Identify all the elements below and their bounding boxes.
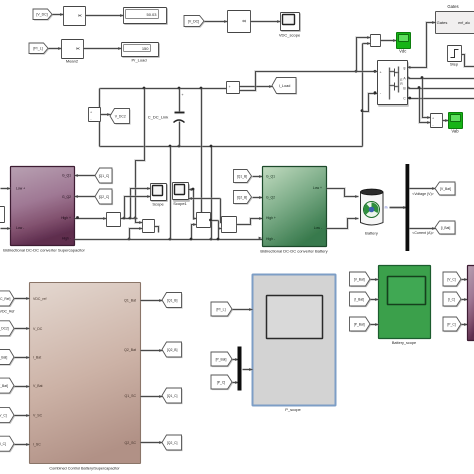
wire (86, 14, 124, 17)
wire to V_DC2 tag (101, 113, 111, 116)
wire gates output (473, 21, 474, 24)
battery block icon (361, 192, 384, 225)
block cut off at left edge (0, 207, 5, 223)
wire (462, 298, 468, 301)
block1 measurement (107, 213, 121, 227)
wire negative rail into High- (261, 238, 264, 241)
wire high+ to current block1 (75, 217, 107, 220)
svg-text:Low +: Low + (313, 186, 322, 190)
svg-text:[Q1_B]: [Q1_B] (167, 298, 177, 302)
wire (462, 323, 468, 326)
svg-text:[Q2_B]: [Q2_B] (237, 195, 247, 199)
wire bridge output B (409, 87, 474, 90)
wire vertical tie x=201 (200, 89, 203, 215)
wire current continuation to bridge + (240, 72, 376, 91)
wire (371, 298, 379, 301)
svg-text:[V_DC]: [V_DC] (36, 13, 47, 17)
svg-text:g: g (404, 66, 406, 70)
scope block Scope (152, 185, 168, 202)
svg-text:[Q2_B]: [Q2_B] (167, 348, 177, 352)
wire step output (462, 55, 474, 67)
wire riser to Scope in1 (131, 189, 151, 219)
svg-text:Scope: Scope (152, 202, 164, 207)
svg-text:[P_Bat]: [P_Bat] (216, 357, 227, 361)
wire vertical tie x=170 (169, 147, 172, 240)
svg-text:[V_DC]: [V_DC] (188, 19, 199, 23)
svg-text:Pr_Load: Pr_Load (131, 58, 146, 63)
svg-text:High +: High + (266, 216, 276, 220)
svg-text:[Pr_L]: [Pr_L] (33, 47, 42, 51)
svg-text:Low -: Low - (16, 226, 24, 230)
display Vab (green) (449, 113, 463, 129)
subsystem block universal bridge (MOSFET) (379, 63, 409, 107)
subsystem Combined Control Battery/Supercapacitor (30, 283, 141, 464)
wire Pr_L to P_scope (233, 308, 253, 311)
svg-text:V_SC: V_SC (33, 414, 43, 418)
wire Low- to battery - (327, 219, 359, 229)
svg-text:Scope1: Scope1 (173, 201, 187, 206)
wire (205, 20, 228, 23)
from tag V_Bat (351, 273, 372, 287)
svg-text:G_Q1: G_Q1 (266, 174, 275, 178)
wire Low+ to battery + (327, 189, 359, 197)
subsystem Bidirectional DC-DC converter Supercapacitor (11, 167, 75, 246)
svg-text:P_scope: P_scope (285, 407, 301, 412)
svg-text:V_DC: V_DC (33, 327, 43, 331)
from tag P_C (212, 376, 233, 390)
svg-text:[Q2_C]: [Q2_C] (167, 441, 178, 445)
scope window P_scope (253, 275, 336, 406)
wire (84, 47, 122, 50)
block Mean3 (228, 11, 251, 33)
block Mean2 (62, 40, 84, 59)
svg-text:VDC_Ref: VDC_Ref (0, 310, 14, 314)
svg-text:Battery: Battery (365, 231, 378, 236)
display block Pr_Load 150 (123, 44, 160, 58)
wire Q1_B to G_Q1 (253, 175, 263, 178)
wire into bridge + port (376, 70, 378, 73)
goto tags right (outputs) (141, 299, 163, 302)
svg-text:150: 150 (142, 46, 149, 51)
wire riser to Scope in2 (125, 197, 151, 219)
wire Q2_C to G_Q2 (75, 195, 96, 198)
block4 product (222, 217, 237, 233)
goto tag I_Load (273, 79, 297, 95)
svg-text:VDC_scope: VDC_scope (279, 33, 301, 38)
svg-text:Step: Step (450, 62, 459, 67)
from tag I_Bat (351, 293, 372, 307)
scope block Battery_scope (379, 266, 431, 339)
wire into Low- from left edge (1, 227, 11, 230)
wire into block3 in2 (192, 225, 197, 240)
svg-text:[Q1_B]: [Q1_B] (237, 174, 247, 178)
svg-text:[V_C]: [V_C] (0, 414, 7, 418)
from tag Pr_L (212, 303, 233, 317)
block Vab voltage measurement (431, 114, 443, 128)
svg-text:[Q1_C]: [Q1_C] (99, 174, 110, 178)
from tag P_Bat (212, 353, 233, 367)
capacitor C_DC_Link (178, 89, 181, 113)
svg-text:V_DC2: V_DC2 (115, 114, 126, 118)
svg-text:[I_C]: [I_C] (448, 297, 455, 301)
wire dc-link negative vertical (361, 44, 364, 147)
wire vdc measure - riser (363, 42, 371, 45)
wire mux to P_scope (243, 368, 253, 371)
wire node to block3 in1 (194, 190, 197, 219)
block Mean1 (64, 7, 86, 26)
svg-text:Q1_Bat: Q1_Bat (124, 299, 136, 303)
svg-text:[I_Bat]: [I_Bat] (0, 355, 7, 359)
svg-text:Vdc: Vdc (399, 49, 406, 54)
wire (443, 119, 449, 122)
wire Q2_B to G_Q2 (253, 196, 263, 199)
svg-text:50.03: 50.03 (146, 12, 157, 17)
svg-text:[Pr_L]: [Pr_L] (216, 307, 225, 311)
wire link positive to supercap high side (136, 89, 145, 219)
svg-text:[I_Bat]: [I_Bat] (441, 226, 451, 230)
wire A to Vab measure (423, 79, 431, 118)
svg-text:[P_Bat]: [P_Bat] (354, 322, 365, 326)
wire (371, 323, 379, 326)
svg-text:[V_DC2]: [V_DC2] (0, 327, 9, 331)
svg-text:I_Load: I_Load (279, 84, 291, 88)
svg-text:Battery_scope: Battery_scope (392, 341, 416, 345)
wire into Low+ from left edge (1, 187, 11, 190)
svg-text:x̄: x̄ (242, 19, 248, 22)
mux bar (238, 347, 242, 391)
wire block2 out (155, 227, 159, 233)
svg-text:[Q1_C]: [Q1_C] (167, 394, 178, 398)
svg-text:Combined Control Battery/Super: Combined Control Battery/Supercapacitor (49, 467, 120, 471)
display Vdc (green) (397, 33, 411, 49)
svg-text:C_DC_Link: C_DC_Link (148, 115, 168, 120)
wire (462, 278, 468, 281)
from tag Pr_L (row 2) (30, 44, 49, 55)
svg-text:[Q2_C]: [Q2_C] (99, 195, 110, 199)
svg-text:[P_C]: [P_C] (447, 322, 455, 326)
svg-text:High -: High - (62, 237, 71, 241)
svg-text:[P_C]: [P_C] (217, 380, 226, 384)
display block 50.03 (125, 9, 168, 25)
block voltage measurement V_DC2 (89, 108, 101, 122)
from tag Q2_B (235, 192, 253, 205)
svg-text:I_SC: I_SC (33, 442, 41, 446)
from tag Q1_B (235, 171, 253, 184)
svg-text:+: + (379, 70, 381, 74)
svg-text:+: + (229, 85, 231, 89)
from tag P_Bat (351, 318, 372, 332)
svg-text:<Current (A)>: <Current (A)> (412, 231, 433, 235)
wire into Scope1 in1 from right (189, 188, 194, 191)
from tag P_C (444, 318, 462, 332)
scope block Scope1 (flipped) (174, 185, 190, 202)
wire vertical x=218 (217, 221, 220, 240)
wire (371, 278, 379, 281)
from tags left edge (inputs) (0, 292, 15, 307)
from tag I_Bat (bus) (436, 222, 456, 235)
subsystem Bidirectional DC-DC converter Battery (263, 167, 327, 247)
wire B to Vab measure (420, 89, 431, 123)
wire bus out Current (410, 227, 436, 230)
block current measurement I_Load sensor (227, 82, 240, 94)
from tag V_DC (row 3) (185, 17, 205, 28)
wire into block2 in1 (136, 219, 143, 223)
scope block VDC_scope (282, 14, 301, 32)
svg-text:[V_Bat]: [V_Bat] (0, 384, 8, 388)
wire dc-link left branch top (98, 89, 101, 108)
wire to I_Load tag (240, 85, 273, 88)
wire (251, 20, 281, 23)
wire vdc measure + riser (357, 38, 371, 72)
svg-text:Q1_SC: Q1_SC (125, 394, 137, 398)
subsystem supercapacitor scope (cut off) (468, 266, 474, 341)
svg-text:+: + (432, 117, 434, 121)
svg-text:G_Q1: G_Q1 (62, 173, 71, 177)
svg-text:[VDC_Ref]: [VDC_Ref] (0, 297, 10, 301)
svg-text:High +: High + (61, 216, 71, 220)
wire block1 out (121, 217, 138, 220)
wire (53, 13, 64, 16)
wire block3 out (211, 219, 219, 222)
wire into Scope1 in2 from right (189, 197, 221, 200)
svg-text:G_Q2: G_Q2 (266, 196, 275, 200)
from tag Q2_C (96, 190, 113, 205)
svg-text:I_Bat: I_Bat (33, 356, 41, 360)
wire gates input from bridge g (409, 23, 436, 68)
wire (233, 358, 239, 361)
from tag V_C (444, 273, 462, 287)
svg-text:VDC_ref: VDC_ref (33, 297, 46, 301)
wire bus out Voltage (410, 187, 436, 190)
svg-text:enf_alu: enf_alu (458, 21, 470, 25)
svg-text:Gates: Gates (437, 20, 448, 25)
wire bridge output C (409, 97, 474, 100)
bus selector bar (406, 164, 410, 251)
block Vdc voltage measurement (371, 35, 381, 47)
svg-text:Vab: Vab (451, 129, 459, 134)
wire into bridge - port (363, 94, 378, 112)
svg-text:[I_Bat]: [I_Bat] (354, 297, 364, 301)
from tag V_DC (row 1) (34, 10, 53, 21)
wire dc-link top rail (100, 87, 227, 90)
from tag I_C (444, 293, 462, 307)
from tag V_Bat (bus) (436, 183, 456, 196)
svg-text:[V_C]: [V_C] (447, 277, 455, 281)
wire negative rail to converters (long horizontal) (75, 238, 263, 241)
svg-text:G_Q2: G_Q2 (62, 195, 71, 199)
wire block4 out to battery converter High+ (237, 219, 263, 225)
block2 gain (143, 220, 155, 233)
block3 product (197, 213, 211, 228)
from tag Q1_C (96, 169, 113, 184)
goto tag V_DC2 (111, 110, 131, 125)
svg-text:Mean2: Mean2 (66, 59, 79, 64)
svg-text:[I_C]: [I_C] (0, 442, 6, 446)
wire into block4 in2 (219, 227, 222, 230)
svg-text:<Voltage (V)>: <Voltage (V)> (412, 192, 433, 196)
svg-text:Bidirectional DC-DC converter: Bidirectional DC-DC converter Battery (260, 249, 327, 254)
wire into block2 in2 (130, 229, 143, 240)
svg-text:High -: High - (266, 237, 275, 241)
block Step (448, 46, 462, 62)
svg-text:V_Bat: V_Bat (33, 384, 43, 388)
wire (381, 39, 397, 42)
wire dc-link bottom rail (100, 145, 363, 148)
svg-text:Low -: Low - (314, 226, 322, 230)
wire Q1_C to G_Q1 (75, 174, 96, 177)
wire bridge output A (409, 77, 474, 80)
wire (233, 381, 239, 384)
wire vertical tie x=211 (210, 147, 213, 240)
wire down to block4 in1 (221, 199, 223, 223)
wire dc-link left branch bottom (98, 122, 101, 147)
svg-text:[V_Bat]: [V_Bat] (354, 277, 365, 281)
svg-text:Bidirectional DC-DC converter: Bidirectional DC-DC converter Supercapac… (3, 248, 85, 253)
svg-text:m: m (385, 205, 388, 209)
svg-text:Gates: Gates (447, 4, 458, 9)
svg-text:Low +: Low + (16, 187, 25, 191)
svg-text:Q2_Bat: Q2_Bat (124, 348, 136, 352)
svg-text:[V_Bat]: [V_Bat] (440, 187, 451, 191)
svg-text:Q2_SC: Q2_SC (125, 441, 137, 445)
svg-text:+: + (90, 111, 92, 115)
wire (49, 47, 62, 50)
